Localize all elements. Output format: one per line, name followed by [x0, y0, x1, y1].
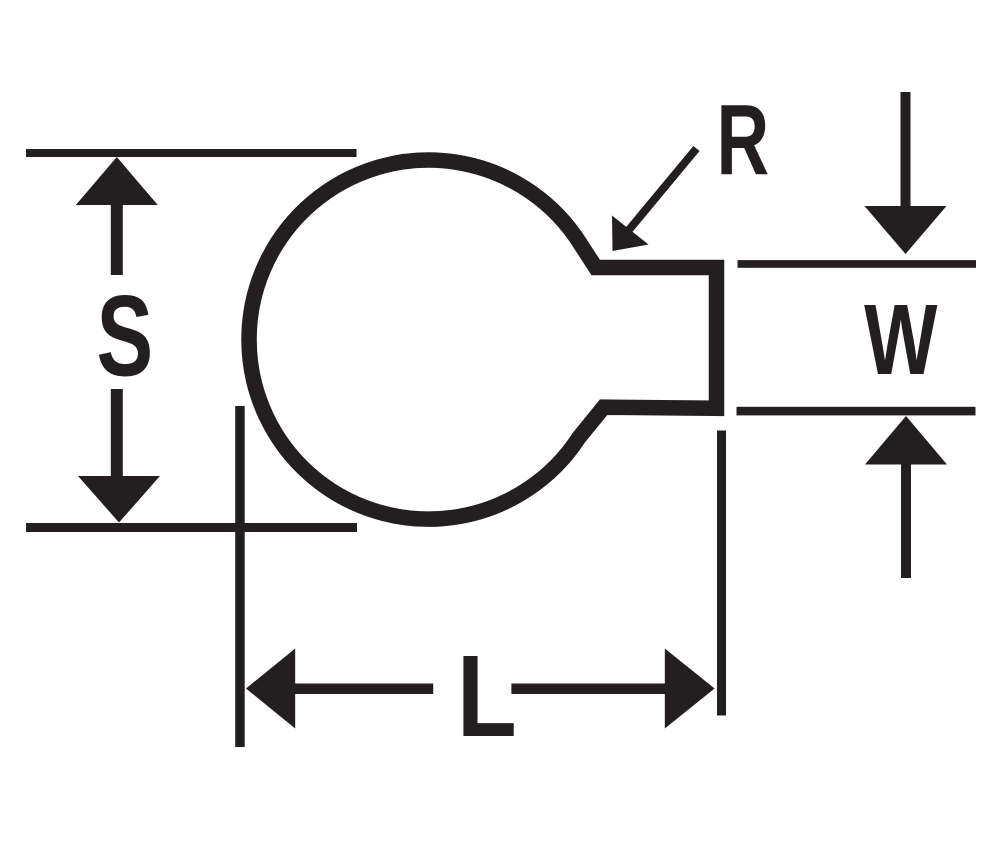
svg-text:R: R [716, 84, 769, 196]
L dimension left arrowhead [246, 649, 295, 729]
S dimension lower stem [111, 389, 123, 477]
S bottom extension line [26, 523, 357, 532]
L dimension left stem [294, 684, 433, 695]
W bottom dimension line [737, 407, 976, 416]
L left extension line [235, 406, 245, 747]
W dimension bottom stem [901, 463, 911, 578]
S dimension up arrowhead [76, 157, 158, 205]
S top extension line [26, 149, 357, 157]
W dimension top stem [901, 92, 911, 206]
S dimension down arrowhead [78, 476, 160, 523]
keyhole outline: ball (diameter S) with slot (width W) [249, 160, 716, 519]
W dimension up arrowhead [865, 416, 947, 465]
L right extension line [717, 431, 726, 716]
W top dimension line [738, 260, 977, 268]
svg-text:L: L [457, 631, 517, 761]
R leader arrowhead [612, 216, 649, 252]
L dimension right stem [511, 684, 665, 695]
L dimension right arrowhead [665, 649, 715, 729]
svg-text:S: S [97, 272, 154, 401]
S dimension upper stem [111, 204, 123, 275]
W dimension down arrowhead [865, 206, 947, 254]
svg-text:W: W [864, 284, 938, 396]
R leader line [628, 149, 697, 232]
